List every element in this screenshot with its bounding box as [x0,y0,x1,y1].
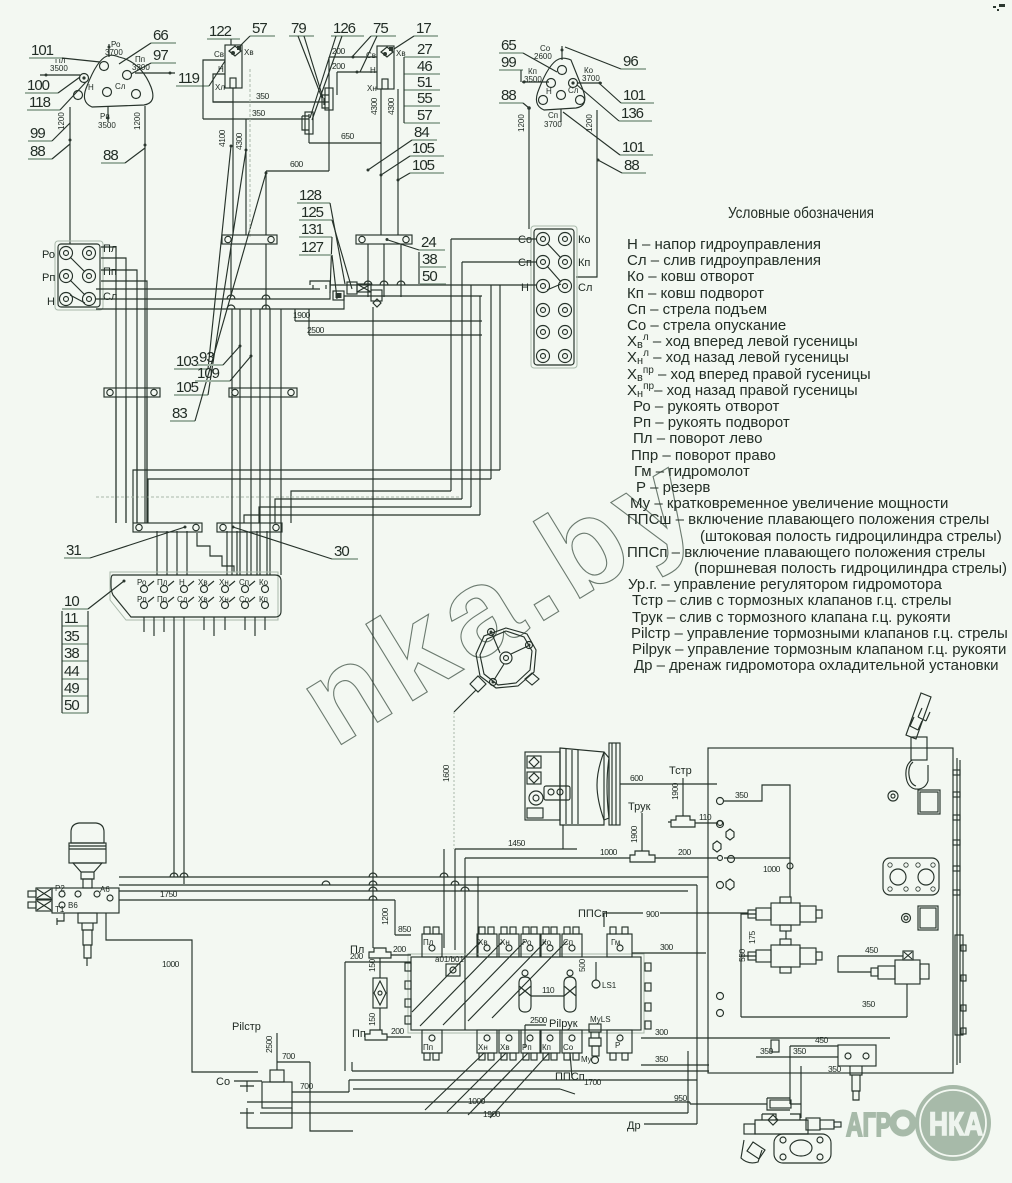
svg-text:Сл: Сл [103,291,117,303]
svg-text:200: 200 [678,847,691,857]
svg-text:79: 79 [291,20,306,37]
svg-text:128: 128 [299,187,322,204]
svg-text:Со: Со [239,595,250,604]
svg-text:В6: В6 [68,901,78,910]
svg-text:2600: 2600 [534,52,552,61]
svg-text:Тстр: Тстр [669,765,692,777]
svg-text:3700: 3700 [544,120,562,129]
svg-text:Сл: Сл [177,595,188,604]
svg-text:1900: 1900 [483,1109,501,1119]
svg-text:Pilстр: Pilстр [232,1021,261,1033]
svg-text:Н – напор гидроуправления: Н – напор гидроуправления [627,236,821,253]
svg-text:Условные обозначения: Условные обозначения [728,205,874,222]
svg-text:50: 50 [64,697,79,714]
svg-text:Сп: Сп [239,578,249,587]
svg-text:38: 38 [422,251,437,268]
svg-text:Хн: Хн [367,84,377,93]
svg-text:30: 30 [334,543,349,560]
svg-text:Р – резерв: Р – резерв [636,479,710,496]
svg-text:Pilрук: Pilрук [549,1018,578,1030]
svg-text:Н: Н [47,296,55,308]
svg-text:850: 850 [398,924,411,934]
svg-text:Ко: Ко [578,234,591,246]
svg-text:Сл: Сл [578,282,592,294]
svg-text:Сл: Сл [115,82,126,91]
svg-text:Гм: Гм [611,938,620,947]
svg-text:Му – кратковременное увеличени: Му – кратковременное увеличение мощности [630,495,948,512]
svg-text:100: 100 [27,77,50,94]
svg-text:Ко: Ко [259,578,269,587]
svg-text:350: 350 [655,1054,668,1064]
svg-text:99: 99 [501,54,516,71]
svg-text:Пл: Пл [423,938,434,947]
svg-text:ППСп: ППСп [555,1071,585,1083]
svg-text:(штоковая полость гидроцилиндр: (штоковая полость гидроцилиндра стрелы) [700,528,1002,545]
svg-text:88: 88 [103,147,118,164]
svg-text:35: 35 [64,628,79,645]
svg-text:450: 450 [865,945,878,955]
svg-text:Хв: Хв [244,48,254,57]
svg-text:126: 126 [333,20,356,37]
svg-text:Ро: Ро [42,249,55,261]
svg-text:103: 103 [176,353,199,370]
svg-text:38: 38 [64,645,79,662]
svg-text:Пп: Пп [157,595,167,604]
svg-text:Р2: Р2 [55,884,65,893]
svg-text:150: 150 [367,959,377,972]
svg-text:75: 75 [373,20,388,37]
svg-text:119: 119 [178,70,200,87]
svg-text:11: 11 [64,610,78,627]
svg-text:Тстр – слив с тормозных клапан: Тстр – слив с тормозных клапанов г.ц. ст… [632,592,952,609]
svg-text:1200: 1200 [380,907,390,925]
svg-text:1200: 1200 [585,114,594,132]
svg-text:118: 118 [29,94,51,111]
svg-text:Хв: Хв [198,595,208,604]
svg-text:50: 50 [422,268,437,285]
svg-text:4300: 4300 [234,132,244,150]
svg-text:Т1: Т1 [55,905,65,914]
svg-text:1000: 1000 [468,1096,486,1106]
svg-text:(поршневая полость гидроцилинд: (поршневая полость гидроцилиндра стрелы) [694,560,1007,577]
svg-text:24: 24 [421,234,436,251]
svg-text:31: 31 [66,542,81,559]
svg-text:Др – дренаж гидромотора охлади: Др – дренаж гидромотора охладительной ус… [634,657,999,674]
svg-text:51: 51 [417,74,432,91]
svg-text:1200: 1200 [133,112,142,130]
svg-text:101: 101 [31,42,54,59]
svg-text:3500: 3500 [524,75,542,84]
svg-text:Пл: Пл [157,578,168,587]
svg-text:1900: 1900 [670,782,680,800]
svg-text:Гм – гидромолот: Гм – гидромолот [634,463,750,480]
svg-text:LS1: LS1 [602,981,617,990]
svg-text:101: 101 [623,87,646,104]
svg-text:110: 110 [699,812,712,822]
svg-text:450: 450 [815,1035,828,1045]
svg-text:Кп: Кп [542,1043,551,1052]
svg-text:46: 46 [417,58,432,75]
svg-text:88: 88 [501,87,516,104]
svg-text:4300: 4300 [386,97,396,115]
svg-text:350: 350 [252,108,265,118]
svg-text:127: 127 [301,239,324,256]
svg-text:АГР: АГР [846,1106,891,1143]
svg-text:Сп: Сп [518,257,532,269]
svg-text:99: 99 [30,125,45,142]
svg-text:109: 109 [197,365,220,382]
svg-text:Хн: Хн [219,595,229,604]
svg-text:3500: 3500 [50,64,68,73]
svg-text:ППСш – включение плавающего по: ППСш – включение плавающего положения ст… [627,511,989,528]
svg-text:350: 350 [862,999,875,1009]
svg-text:Сл – слив гидроуправления: Сл – слив гидроуправления [627,252,821,269]
svg-text:110: 110 [542,985,555,995]
svg-text:200: 200 [391,1026,404,1036]
svg-text:700: 700 [282,1051,295,1061]
svg-text:1750: 1750 [160,889,178,899]
svg-text:1000: 1000 [763,864,781,874]
svg-text:66: 66 [153,27,168,44]
svg-text:105: 105 [412,157,435,174]
svg-text:650: 650 [341,131,354,141]
svg-text:96: 96 [623,53,638,70]
svg-text:1700: 1700 [584,1077,602,1087]
svg-text:175: 175 [747,931,757,944]
svg-text:Пп: Пп [352,1028,366,1040]
svg-text:Сп – стрела подъем: Сп – стрела подъем [627,301,767,318]
svg-text:65: 65 [501,37,516,54]
svg-text:122: 122 [209,23,232,40]
svg-text:84: 84 [414,124,429,141]
svg-text:3700: 3700 [582,74,600,83]
svg-text:350: 350 [735,790,748,800]
svg-text:3700: 3700 [105,48,123,57]
svg-text:150: 150 [367,1013,377,1026]
svg-text:Кп: Кп [578,257,590,269]
svg-text:200: 200 [393,944,406,954]
svg-text:Кп – ковш подворот: Кп – ковш подворот [627,285,764,302]
svg-text:500: 500 [577,959,587,972]
svg-text:Хн: Хн [219,578,229,587]
svg-text:900: 900 [646,909,659,919]
svg-text:ППСп – включение плавающего по: ППСп – включение плавающего положения ст… [627,544,985,561]
svg-text:ППСп: ППСп [578,908,608,920]
svg-text:Р: Р [615,1041,620,1050]
svg-text:Сп: Сп [548,111,558,120]
svg-text:10: 10 [64,593,79,610]
svg-text:Ур.г. – управление регулятором: Ур.г. – управление регулятором гидромото… [628,576,942,593]
svg-text:Пл: Пл [103,243,117,255]
svg-text:4300: 4300 [369,97,379,115]
svg-text:Н: Н [370,66,376,75]
svg-text:Со – стрела опускание: Со – стрела опускание [627,317,786,334]
svg-text:Трук: Трук [628,801,651,813]
svg-text:350: 350 [793,1046,806,1056]
svg-text:200: 200 [332,46,345,56]
svg-text:НКА: НКА [929,1106,983,1142]
svg-text:1600: 1600 [441,764,451,782]
svg-text:Ро – рукоять отворот: Ро – рукоять отворот [633,398,779,415]
svg-text:105: 105 [412,140,435,157]
svg-text:Пл – поворот лево: Пл – поворот лево [633,430,762,447]
svg-text:а01/b01: а01/b01 [435,955,464,964]
svg-text:Хнл – ход назад левой гусеницы: Хнл – ход назад левой гусеницы [627,348,849,367]
svg-text:Рп: Рп [42,272,55,284]
svg-text:88: 88 [624,157,639,174]
svg-text:Со: Со [518,234,532,246]
svg-text:83: 83 [172,405,187,422]
svg-text:131: 131 [301,221,324,238]
svg-text:Рп: Рп [522,1043,532,1052]
svg-text:2500: 2500 [307,325,325,335]
svg-text:Pilрук – управление тормозным: Pilрук – управление тормозным клапаном г… [632,641,1006,658]
svg-text:Пп: Пп [423,1043,433,1052]
svg-text:44: 44 [64,663,79,680]
svg-text:600: 600 [290,159,303,169]
svg-text:3500: 3500 [98,121,116,130]
svg-text:49: 49 [64,680,79,697]
svg-text:Трук – слив с тормозного клапа: Трук – слив с тормозного клапана г.ц. ру… [632,609,951,626]
svg-text:93: 93 [199,349,214,366]
svg-text:17: 17 [416,20,431,37]
svg-text:1200: 1200 [517,114,526,132]
svg-text:Хн: Хн [478,1043,488,1052]
svg-text:136: 136 [621,105,644,122]
svg-text:Н: Н [546,87,552,96]
svg-text:МуLS: МуLS [590,1015,611,1024]
svg-text:350: 350 [256,91,269,101]
svg-text:2500: 2500 [530,1015,548,1025]
svg-text:Пп: Пп [103,266,117,278]
svg-text:200: 200 [350,951,363,961]
svg-text:Сл: Сл [568,86,579,95]
svg-text:4100: 4100 [217,129,227,147]
svg-text:27: 27 [417,41,432,58]
svg-text:2500: 2500 [264,1035,274,1053]
svg-text:Со: Со [216,1076,230,1088]
svg-text:Ко – ковш отворот: Ко – ковш отворот [627,268,754,285]
svg-text:200: 200 [332,61,345,71]
svg-text:Хв: Хв [198,578,208,587]
svg-text:1000: 1000 [162,959,180,969]
svg-text:Н: Н [88,83,94,92]
svg-text:Ппр – поворот право: Ппр – поворот право [631,447,776,464]
svg-text:101: 101 [622,139,645,156]
svg-text:300: 300 [655,1027,668,1037]
svg-text:57: 57 [252,20,267,37]
svg-text:550: 550 [737,949,747,962]
svg-text:Со: Со [563,1043,574,1052]
svg-text:Ко: Ко [542,938,552,947]
svg-text:Pilстр – управление тормозными: Pilстр – управление тормозными клапанов … [631,625,1008,642]
svg-text:Рп – рукоять подворот: Рп – рукоять подворот [633,414,790,431]
svg-text:Сп: Сп [563,938,573,947]
svg-text:1900: 1900 [293,310,311,320]
svg-text:Рп: Рп [137,595,147,604]
svg-text:Н: Н [521,282,529,294]
svg-text:Св: Св [214,50,224,59]
svg-text:125: 125 [301,204,324,221]
svg-text:88: 88 [30,143,45,160]
svg-text:Mу: Mу [581,1055,592,1064]
svg-text:1000: 1000 [600,847,618,857]
svg-text:1900: 1900 [629,825,639,843]
svg-text:55: 55 [417,90,432,107]
svg-text:600: 600 [630,773,643,783]
svg-text:97: 97 [153,47,168,64]
svg-text:350: 350 [828,1064,841,1074]
svg-text:1200: 1200 [57,112,66,130]
svg-text:Н: Н [179,578,185,587]
svg-text:950: 950 [674,1093,687,1103]
svg-text:Хл: Хл [215,83,225,92]
svg-text:57: 57 [417,107,432,124]
svg-text:700: 700 [300,1081,313,1091]
svg-text:1450: 1450 [508,838,526,848]
svg-text:Ро: Ро [137,578,147,587]
svg-text:300: 300 [660,942,673,952]
svg-text:Хв: Хв [500,1043,510,1052]
svg-text:Др: Др [627,1120,641,1132]
svg-text:Рп: Рп [100,112,110,121]
svg-text:А6: А6 [100,885,110,894]
svg-text:Кп: Кп [259,595,268,604]
